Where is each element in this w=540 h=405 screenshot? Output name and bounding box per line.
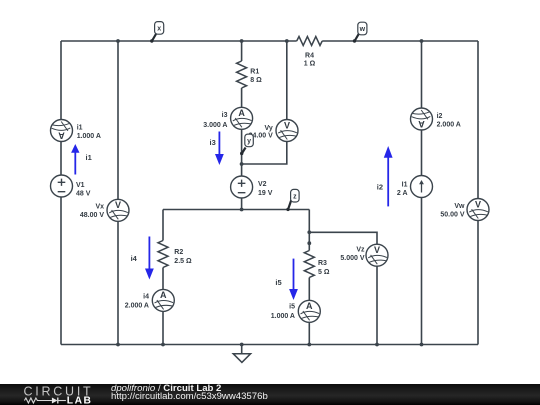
svg-text:LAB: LAB (67, 396, 93, 405)
voltmeter Vx (107, 199, 129, 221)
current arrow i5 (275, 259, 298, 300)
junction bottom i5 branch (307, 343, 311, 347)
ammeter i3 (231, 107, 253, 129)
svg-text:z: z (293, 194, 297, 201)
wire mid horizontal (163, 209, 309, 211)
svg-text:i3: i3 (210, 138, 216, 147)
junction V2 bottom / mid wire (240, 208, 244, 212)
svg-text:Vx: Vx (95, 204, 104, 211)
wire i2/I1 branch (421, 41, 423, 345)
voltage source V1 (51, 175, 73, 197)
svg-text:2.000 A: 2.000 A (125, 302, 149, 309)
junction top i2 branch (420, 39, 424, 43)
footer bar (0, 384, 540, 405)
junction Vz wire top (307, 230, 311, 234)
logo doodle resistor-diode (24, 398, 52, 403)
wire top: R4 to right corner (322, 40, 478, 42)
wire Vy branch (242, 41, 287, 164)
current arrow i2 (377, 146, 393, 206)
junction node y wire (240, 162, 244, 166)
junction top Vy branch (285, 39, 289, 43)
voltmeter Vw (467, 199, 489, 221)
svg-text:i2: i2 (377, 183, 383, 192)
svg-text:i4: i4 (131, 254, 138, 263)
svg-text:3.000 A: 3.000 A (203, 122, 227, 129)
svg-text:i5: i5 (289, 304, 295, 311)
svg-text:8 Ω: 8 Ω (250, 77, 262, 84)
wire R1/i3/V2 branch (241, 41, 243, 210)
wire Vz branch (309, 232, 377, 344)
svg-text:i1: i1 (77, 125, 83, 132)
svg-text:i5: i5 (275, 278, 281, 287)
svg-text:x: x (157, 26, 161, 33)
current source I1 (411, 176, 433, 198)
wire top: left corner to R4 (61, 40, 297, 42)
resistor R3 (304, 251, 314, 278)
wire R2/i4 branch (162, 210, 164, 345)
junction bottom Vz branch (375, 343, 379, 347)
current arrow i3 (210, 132, 224, 166)
junction bottom i4 branch (161, 343, 165, 347)
ammeter i1 (rotated 180) (51, 120, 73, 142)
current arrow i4 (131, 237, 154, 280)
wire R3/i5 branch (308, 210, 310, 345)
junction bottom i2 branch (420, 343, 424, 347)
junction top R1 branch (240, 39, 244, 43)
current arrow i1 (71, 144, 92, 175)
svg-text:Vz: Vz (356, 246, 365, 253)
ammeter i2 (rotated 180) (411, 108, 433, 130)
svg-text:i1: i1 (86, 153, 92, 162)
svg-text:R4: R4 (305, 53, 314, 60)
node y (240, 134, 253, 155)
svg-text:i2: i2 (437, 113, 443, 120)
wire Vx branch (117, 41, 119, 345)
voltmeter Vz (366, 244, 388, 266)
wire right vertical (477, 41, 479, 345)
svg-text:2 A: 2 A (397, 190, 408, 197)
svg-text:5.000 V: 5.000 V (340, 255, 364, 262)
svg-text:Vw: Vw (454, 203, 465, 210)
svg-text:R2: R2 (174, 249, 183, 256)
wire left vertical (60, 41, 62, 345)
ammeter i5 (298, 300, 320, 322)
svg-text:2.000 A: 2.000 A (437, 122, 461, 129)
svg-text:R3: R3 (318, 260, 327, 267)
svg-text:1.000 A: 1.000 A (271, 313, 295, 320)
svg-text:1.000 A: 1.000 A (77, 133, 101, 140)
svg-text:y: y (247, 138, 251, 145)
svg-text:i4: i4 (143, 293, 149, 300)
svg-text:48 V: 48 V (76, 190, 91, 197)
resistor R4 (297, 37, 323, 46)
svg-text:2.5 Ω: 2.5 Ω (174, 258, 192, 265)
resistor R1 (237, 61, 247, 88)
svg-text:5 Ω: 5 Ω (318, 269, 330, 276)
svg-text:1 Ω: 1 Ω (304, 61, 316, 68)
voltmeter Vy (276, 120, 298, 142)
voltage source V2 (231, 176, 253, 198)
ammeter i4 (152, 289, 174, 311)
svg-text:i3: i3 (222, 112, 228, 119)
svg-text:R1: R1 (250, 68, 259, 75)
svg-text:V2: V2 (258, 181, 267, 188)
svg-text:w: w (359, 26, 366, 33)
svg-text:I1: I1 (402, 181, 408, 188)
svg-text:50.00 V: 50.00 V (440, 212, 464, 219)
junction top Vx branch (116, 39, 120, 43)
wire bottom (61, 344, 478, 346)
svg-text:19 V: 19 V (258, 190, 273, 197)
node w (353, 22, 367, 43)
node x (150, 22, 164, 43)
junction R3 top (307, 241, 311, 245)
svg-text:48.00 V: 48.00 V (80, 212, 104, 219)
junction bottom Vx branch (116, 343, 120, 347)
node z (286, 189, 299, 211)
svg-text:V1: V1 (76, 182, 85, 189)
ground (233, 345, 250, 363)
resistor R2 (158, 241, 168, 268)
junction bottom ground (240, 343, 244, 347)
svg-text:Vy: Vy (264, 125, 272, 132)
